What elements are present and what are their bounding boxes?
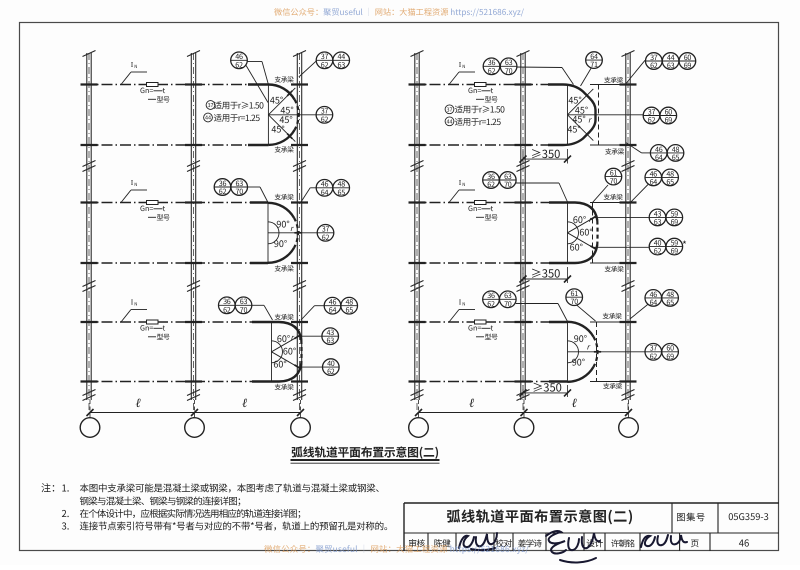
svg-text:型号: 型号: [485, 213, 498, 223]
svg-text:ℓ: ℓ: [469, 396, 474, 410]
svg-text:N: N: [462, 302, 465, 308]
svg-text:支承梁: 支承梁: [604, 75, 624, 85]
svg-text:70: 70: [505, 66, 513, 76]
svg-text:64: 64: [321, 188, 329, 198]
svg-text:62: 62: [654, 247, 662, 257]
thick dashes at grid/column crossings (right): [409, 83, 426, 85]
grid bubble: [185, 418, 205, 438]
left row3 grid lines: [83, 321, 254, 323]
svg-text:37: 37: [447, 105, 453, 113]
svg-text:05G359-3: 05G359-3: [728, 509, 769, 523]
svg-text:46: 46: [739, 536, 750, 550]
notes block: [41, 480, 393, 533]
svg-text:64: 64: [655, 153, 663, 163]
right row2 callout circles: [483, 172, 500, 190]
svg-text:45°: 45°: [567, 122, 580, 135]
left row1 grid lines: [83, 84, 252, 86]
svg-text:支承梁: 支承梁: [603, 381, 623, 391]
section mark I-N and hoist label Gn: [121, 298, 170, 343]
left row3 callout circles: [219, 297, 236, 315]
svg-text:90°: 90°: [572, 355, 585, 368]
column line left A2 (double line w/ centerline): [187, 51, 200, 418]
svg-text:支承梁: 支承梁: [274, 382, 294, 392]
svg-text:ℓ: ℓ: [242, 396, 247, 410]
svg-text:ℓ: ℓ: [571, 396, 576, 410]
title block: [404, 503, 779, 551]
svg-text:微信公众号：聚贸useful ｜ 网站：大猫工程资源 htt: 微信公众号：聚贸useful ｜ 网站：大猫工程资源 https://52168…: [264, 543, 529, 555]
svg-text:弧线轨道平面布置示意图(二): 弧线轨道平面布置示意图(二): [291, 443, 439, 460]
thick dashes at grid/column crossings (left): [81, 83, 98, 85]
right row1 note applicable radius: [445, 105, 454, 114]
svg-text:N: N: [134, 64, 137, 70]
svg-text:63: 63: [654, 217, 662, 227]
right bottom dimension line: [419, 412, 629, 414]
svg-text:64: 64: [650, 298, 658, 308]
svg-text:许朝铭: 许朝铭: [611, 538, 635, 550]
svg-text:69: 69: [684, 61, 692, 71]
section mark I-N and hoist label Gn: [449, 298, 498, 343]
svg-text:62: 62: [223, 305, 231, 315]
right row1 grid lines: [411, 84, 550, 86]
svg-text:69: 69: [666, 352, 674, 362]
left row1 callout circles: [231, 52, 248, 70]
svg-text:Gn=: Gn=: [140, 324, 153, 334]
svg-text:62: 62: [487, 180, 495, 190]
left row1 callout leaders: [246, 61, 262, 63]
column line right A2 (double line w/ centerline): [517, 51, 530, 418]
svg-text:62: 62: [650, 352, 658, 362]
svg-text:≥350: ≥350: [531, 146, 561, 162]
svg-text:N: N: [134, 302, 137, 308]
svg-text:64: 64: [329, 306, 337, 316]
svg-text:型号: 型号: [485, 95, 498, 105]
svg-text:支承梁: 支承梁: [274, 263, 294, 273]
right row3 chord and ray: [567, 322, 569, 382]
svg-text:Gn=: Gn=: [468, 324, 481, 334]
svg-text:65: 65: [666, 298, 674, 308]
svg-text:支承梁: 支承梁: [602, 311, 622, 321]
svg-text:90°: 90°: [274, 237, 287, 250]
svg-text:适用于r≥1.50: 适用于r≥1.50: [455, 104, 506, 116]
note: applicable radius: [206, 101, 215, 110]
svg-text:62: 62: [235, 60, 243, 70]
left plan drawing: curved track layout: [80, 51, 357, 438]
svg-text:微信公众号：聚贸useful ｜ 网站：大猫工程资源 htt: 微信公众号：聚贸useful ｜ 网站：大猫工程资源 https://52168…: [274, 6, 525, 18]
left row3 fan rays: [271, 322, 273, 382]
right row1 fan rays: [567, 85, 569, 146]
svg-text:70: 70: [504, 180, 512, 190]
right row1 leaders: [515, 66, 562, 69]
column line right A1 (double line w/ centerline): [411, 51, 424, 418]
svg-text:63: 63: [327, 336, 335, 346]
svg-text:型号: 型号: [157, 213, 170, 223]
svg-text:适用于r=1.25: 适用于r=1.25: [455, 116, 502, 128]
left row3 track curve (60deg): [252, 322, 301, 340]
svg-text:62: 62: [219, 187, 227, 197]
section mark I-N and hoist label Gn: [449, 178, 498, 223]
svg-text:连接节点索引符号带有*号者与对应的不带*号者，轨道上的预留孔: 连接节点索引符号带有*号者与对应的不带*号者，轨道上的预留孔是对称的。: [80, 518, 394, 532]
right row1 hidden edge dashed line: [598, 85, 600, 146]
left row2 grid lines: [83, 202, 252, 204]
svg-text:≥350: ≥350: [532, 379, 562, 395]
svg-text:65: 65: [672, 153, 680, 163]
svg-text:62: 62: [322, 233, 330, 243]
right row3 callout circles: [483, 291, 500, 309]
svg-text:60°: 60°: [283, 344, 296, 357]
grid bubble: [291, 418, 311, 438]
svg-text:3.: 3.: [62, 518, 70, 532]
svg-text:N: N: [462, 64, 465, 70]
svg-text:N: N: [462, 182, 465, 188]
svg-text:型号: 型号: [157, 333, 170, 343]
right row3 leaders: [516, 303, 558, 305]
svg-text:60°: 60°: [570, 240, 583, 253]
svg-text:60°: 60°: [273, 357, 286, 370]
right row2 fan rays: [567, 203, 569, 264]
svg-text:90°: 90°: [276, 218, 289, 231]
handwritten signature (designer): [641, 535, 687, 547]
svg-text:60°: 60°: [579, 225, 592, 238]
left row2 callout circles: [214, 179, 231, 197]
left row1 track curve (45deg): [248, 83, 268, 85]
svg-text:支承梁: 支承梁: [274, 74, 294, 84]
svg-text:70: 70: [571, 297, 579, 307]
svg-text:支承梁: 支承梁: [274, 311, 294, 321]
svg-text:69: 69: [665, 116, 673, 126]
svg-text:支承梁: 支承梁: [604, 264, 624, 274]
svg-text:70: 70: [240, 305, 248, 315]
section mark I-N and hoist label Gn: [121, 178, 170, 223]
left row1 fan rays: [267, 85, 269, 146]
right row1 track curve (45deg with flat): [548, 85, 596, 146]
grid bubble: [80, 418, 100, 438]
svg-text:70: 70: [504, 299, 512, 309]
svg-text:60°: 60°: [573, 213, 586, 226]
svg-text:71: 71: [590, 60, 598, 70]
handwritten signature (checker): [546, 531, 600, 562]
svg-text:44: 44: [447, 117, 453, 125]
right row2 hidden edge dashed line: [592, 203, 594, 264]
left row2 leaders: [247, 186, 261, 188]
svg-text:45°: 45°: [271, 123, 284, 136]
svg-text:62: 62: [321, 60, 329, 70]
svg-text:适用于r≥1.50: 适用于r≥1.50: [214, 100, 265, 112]
svg-text:65: 65: [346, 306, 354, 316]
svg-text:*: *: [682, 237, 687, 252]
svg-text:Gn=: Gn=: [468, 86, 481, 96]
svg-text:62: 62: [648, 116, 656, 126]
right row2 grid lines: [411, 202, 549, 204]
svg-text:62: 62: [327, 367, 335, 377]
grid bubble: [619, 418, 639, 438]
column line left A3 (double line w/ centerline): [293, 51, 306, 418]
left row2 track curve (90deg): [250, 201, 268, 203]
right row3 hidden edge dashed line: [596, 322, 598, 382]
svg-text:60°: 60°: [277, 332, 290, 345]
column line right A3 (double line w/ centerline): [622, 51, 635, 418]
right row2 leaders and rays: [568, 218, 594, 233]
svg-text:62: 62: [487, 299, 495, 309]
svg-text:69: 69: [671, 217, 679, 227]
svg-text:Gn=: Gn=: [140, 86, 153, 96]
section mark I-N and hoist label Gn: [121, 60, 170, 105]
svg-text:支承梁: 支承梁: [274, 192, 294, 202]
svg-text:支承梁: 支承梁: [274, 144, 294, 154]
svg-text:62: 62: [321, 115, 329, 125]
svg-text:Gn=: Gn=: [140, 204, 153, 214]
svg-text:弧线轨道平面布置示意图(二): 弧线轨道平面布置示意图(二): [446, 507, 633, 527]
section mark I-N and hoist label Gn: [449, 60, 498, 105]
svg-text:适用于r=1.25: 适用于r=1.25: [214, 112, 261, 124]
svg-text:64: 64: [650, 177, 658, 187]
left row2 chord and ray: [267, 203, 269, 264]
svg-text:1.: 1.: [62, 481, 70, 495]
svg-text:支承梁: 支承梁: [603, 192, 623, 202]
svg-text:90°: 90°: [574, 332, 587, 345]
svg-text:ℓ: ℓ: [135, 396, 140, 410]
svg-text:注：: 注：: [41, 480, 61, 495]
grid bubble: [409, 418, 429, 438]
svg-text:支承梁: 支承梁: [605, 146, 625, 156]
right plan drawing: curved track layout with straight insert: [409, 51, 696, 438]
right row3 grid lines: [411, 321, 549, 323]
svg-text:62: 62: [650, 61, 658, 71]
svg-text:65: 65: [338, 188, 346, 198]
svg-text:63: 63: [338, 60, 346, 70]
svg-text:62: 62: [488, 66, 496, 76]
svg-text:≥350: ≥350: [531, 266, 561, 282]
grid bubble: [514, 418, 534, 438]
svg-text:65: 65: [666, 177, 674, 187]
svg-text:69: 69: [671, 247, 679, 257]
right row1 >=350 dimension: [522, 149, 524, 164]
column line left A1 (double line w/ centerline): [83, 51, 96, 418]
right row2 track curve (60deg): [549, 203, 597, 221]
right row1 callout circles: [483, 58, 500, 76]
svg-text:图集号: 图集号: [676, 510, 705, 524]
drawing caption with double underline: [291, 443, 440, 463]
svg-text:44: 44: [205, 114, 211, 122]
svg-text:型号: 型号: [485, 333, 498, 343]
handwritten signature (reviewer): [459, 533, 497, 550]
right row3 track curve (90deg): [549, 321, 568, 323]
svg-text:型号: 型号: [157, 95, 170, 105]
left row3 leaders: [251, 304, 264, 306]
svg-text:70: 70: [610, 177, 618, 187]
right row3 >=350 dimension: [522, 385, 524, 397]
svg-text:70: 70: [236, 187, 244, 197]
right row2 >=350 dimension: [522, 267, 524, 283]
svg-text:页: 页: [690, 537, 699, 550]
svg-text:N: N: [134, 182, 137, 188]
left bottom dimension line: [90, 412, 301, 414]
svg-text:Gn=: Gn=: [468, 204, 481, 214]
svg-text:63: 63: [667, 61, 675, 71]
